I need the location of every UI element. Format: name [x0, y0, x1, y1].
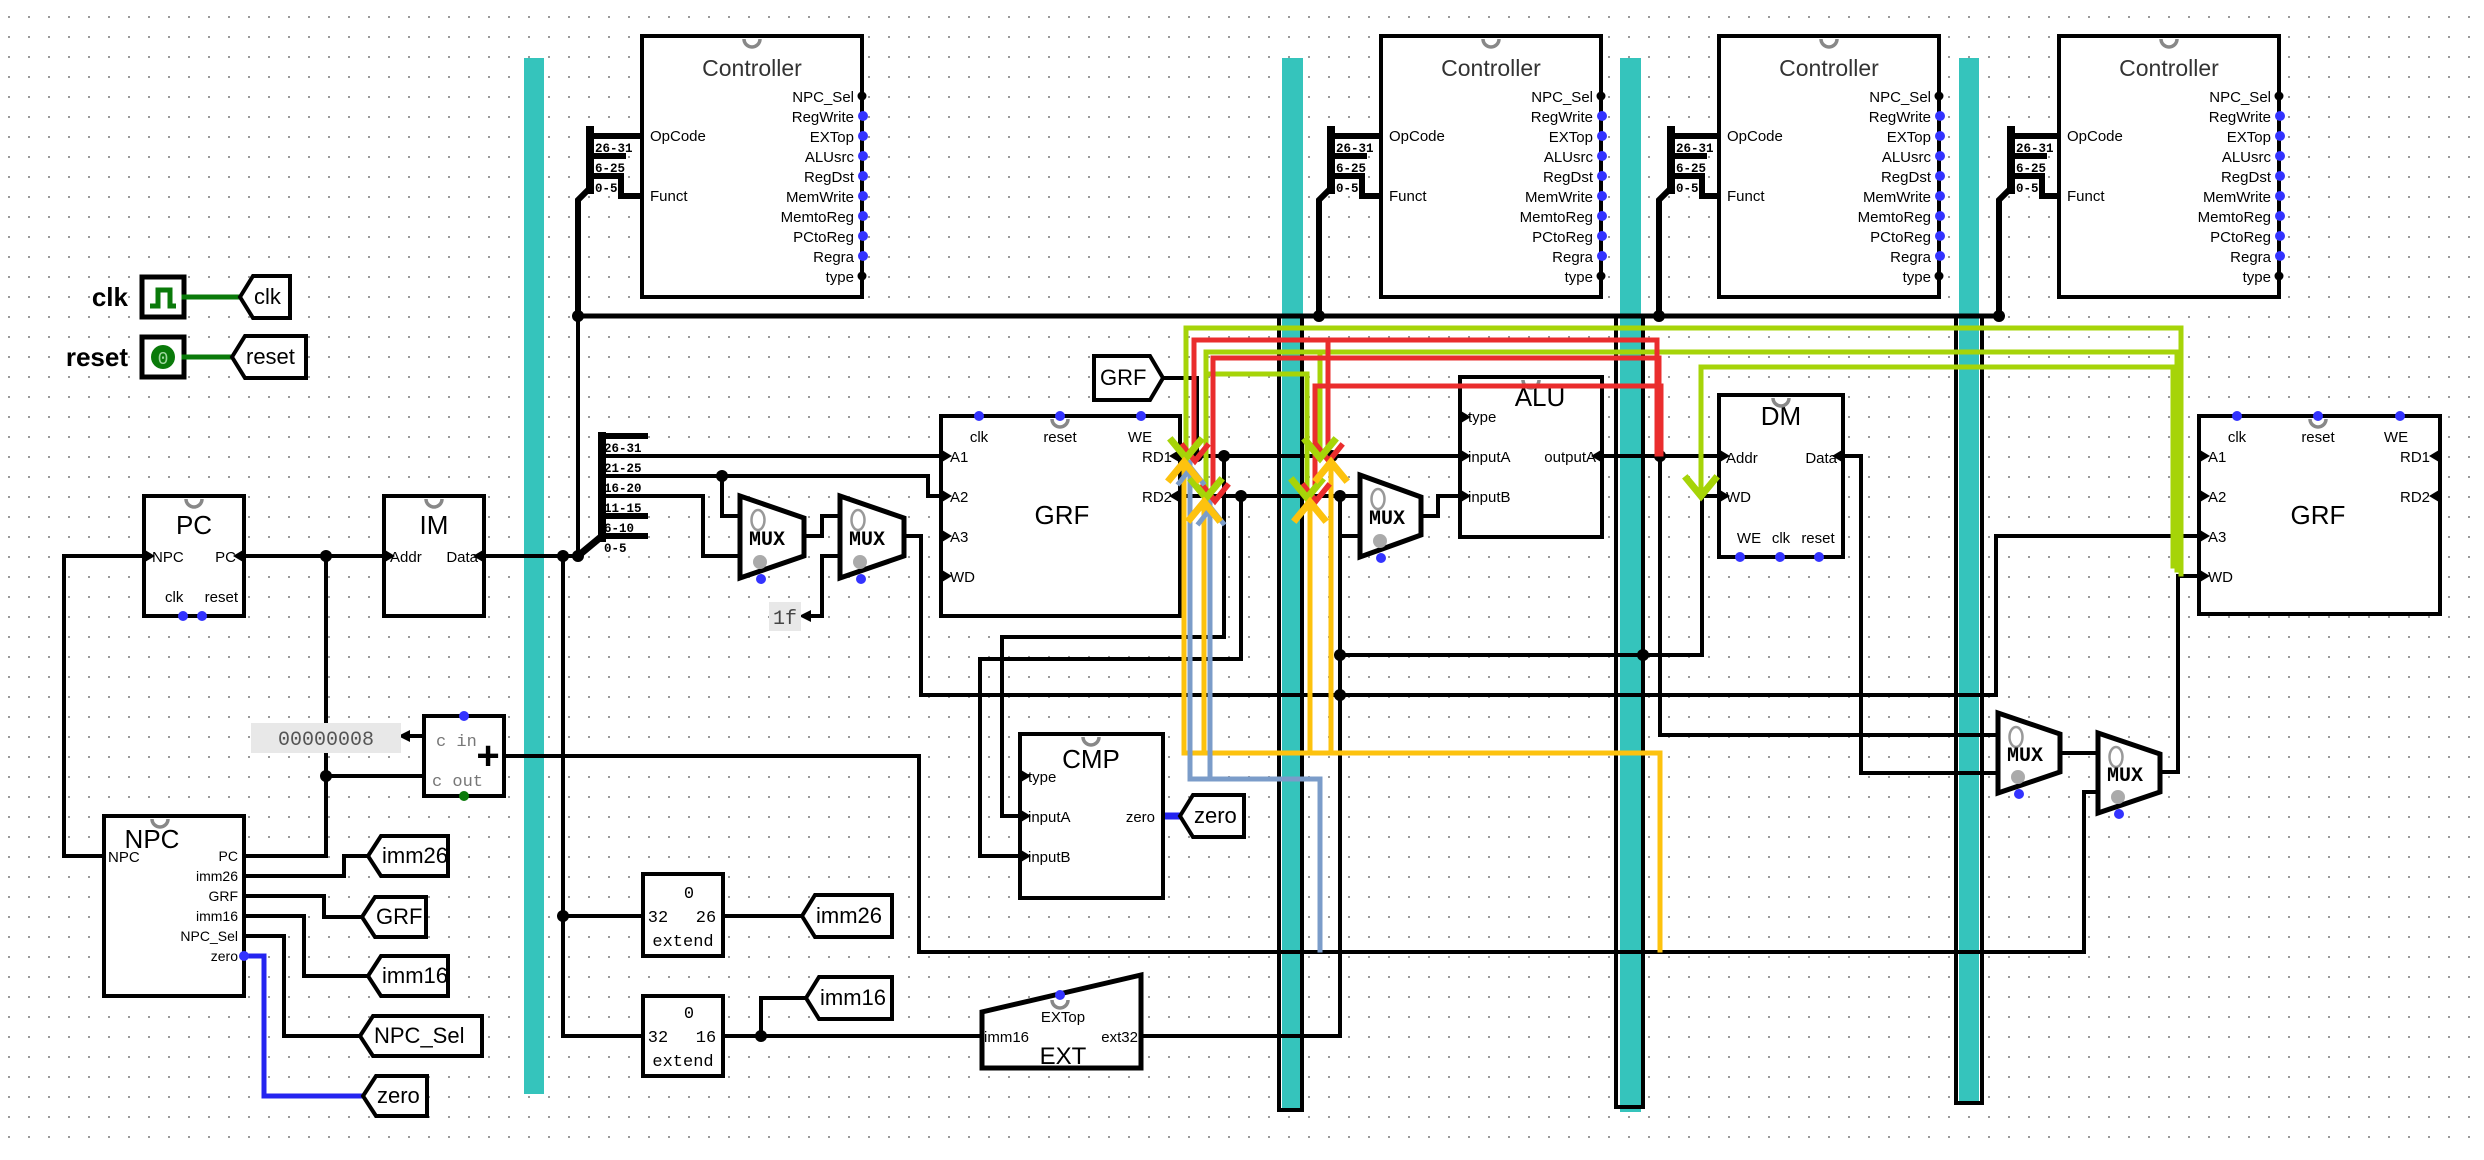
annotation green WB to RD2 left [1206, 352, 2177, 570]
svg-text:Controller: Controller [702, 55, 802, 81]
node rt junction [716, 470, 728, 482]
svg-text:EXTop: EXTop [1887, 129, 1931, 146]
svg-text:reset: reset [1043, 429, 1077, 446]
svg-text:imm26: imm26 [382, 843, 448, 868]
memory DM [1719, 395, 1843, 557]
wire DM Data to MUXA lower [1843, 456, 1998, 773]
svg-text:RD1: RD1 [2400, 449, 2430, 466]
adder PC+8 [424, 716, 504, 796]
svg-text:PCtoReg: PCtoReg [1870, 229, 1931, 246]
PC clk dot [178, 611, 188, 621]
controller U2 pin dot RegDst [1597, 171, 1607, 181]
svg-text:c in: c in [436, 733, 477, 752]
svg-text:imm16: imm16 [382, 963, 448, 988]
svg-text:RegWrite: RegWrite [2209, 109, 2271, 126]
wire MUX1 out to MUX2 [804, 516, 840, 536]
arrow blue RD2 left [1199, 508, 1223, 523]
svg-text:NPC_Sel: NPC_Sel [180, 928, 238, 944]
svg-text:type: type [1903, 269, 1931, 286]
pipeline register bar MEM/WB [1959, 58, 1979, 1102]
wire c out to adder [326, 774, 424, 778]
node adder cout junction [320, 770, 332, 782]
arrow red RD1 right [1317, 446, 1341, 461]
svg-text:NPC_Sel: NPC_Sel [1531, 89, 1593, 106]
flag zero left [363, 1076, 427, 1116]
arrow red RD2 left [1203, 486, 1227, 501]
node RD2 junction [1235, 490, 1247, 502]
IM pin Addr mark [385, 550, 395, 562]
splitter controller 2 spine [1327, 130, 1335, 190]
splitter controller 1 stub 6-25 [590, 153, 623, 159]
PC pin NPC mark [145, 550, 155, 562]
wire RD2 to CMP inputB [980, 496, 1241, 856]
flag imm26 mid [802, 895, 892, 937]
extender 32-16 [643, 996, 723, 1076]
splitter controller 1 branch 0-5 [590, 176, 640, 196]
svg-text:0-5: 0-5 [595, 182, 618, 196]
flag NPC_Sel [360, 1016, 482, 1056]
arrow green RD2 left [1192, 481, 1220, 498]
wire ALU result bypass to MUXA [1660, 456, 1998, 735]
svg-text:Regra: Regra [1552, 249, 1594, 266]
svg-text:clk: clk [970, 429, 989, 446]
wire instr feed to controller 2 splitter [1319, 188, 1331, 316]
svg-text:RD2: RD2 [2400, 489, 2430, 506]
wire ALU outputA to DM Addr [1602, 454, 1719, 458]
arrow green DM WD [1687, 479, 1715, 496]
svg-text:0-5: 0-5 [1676, 182, 1699, 196]
svg-text:RD1: RD1 [1142, 449, 1172, 466]
svg-text:A2: A2 [2208, 489, 2226, 506]
GRF2 A3 mark [2200, 530, 2210, 542]
svg-text:WD: WD [950, 569, 975, 586]
svg-text:reset: reset [246, 344, 295, 369]
annotation green WB to RD2 right [1206, 374, 1307, 488]
wire RD2 store data down [1338, 496, 1342, 1036]
arrow red RD1 left [1183, 446, 1207, 461]
svg-text:Funct: Funct [1389, 188, 1427, 205]
pipeline register bar ID/EX [1282, 58, 1303, 1112]
svg-text:ALUsrc: ALUsrc [2222, 149, 2272, 166]
svg-text:RegDst: RegDst [804, 169, 855, 186]
svg-text:0-5: 0-5 [1336, 182, 1359, 196]
svg-text:GRF: GRF [2291, 500, 2346, 530]
wire PC feedback loop left [64, 556, 144, 856]
svg-text:NPC_Sel: NPC_Sel [1869, 89, 1931, 106]
wire extend26 out to imm26 [723, 914, 802, 918]
DM Data mark [1832, 450, 1842, 462]
svg-text:Controller: Controller [1441, 55, 1541, 81]
controller U1 notch [744, 39, 760, 47]
splitter controller 2 stub 6-25 [1331, 153, 1364, 159]
wire NPC PC... imm26 out [244, 856, 368, 876]
flag reset [232, 336, 306, 378]
svg-text:PC: PC [176, 510, 212, 540]
splitter controller 1 spine [586, 130, 594, 190]
wire RD2 to MUX3 upper [1180, 494, 1360, 498]
mux M2 (RegDst b) [840, 496, 904, 578]
node instr bus junction 4 [1993, 310, 2005, 322]
controller U4 pin dot type [2275, 272, 2284, 281]
annotation blue cmp path [1190, 462, 1320, 950]
splitter controller 2 branch 26-31 [1331, 133, 1381, 139]
svg-text:MUX: MUX [749, 529, 785, 552]
svg-text:WE: WE [1128, 429, 1152, 446]
GRF1 WE dot [1136, 411, 1146, 421]
svg-text:OpCode: OpCode [1389, 128, 1445, 145]
controller U1 pin dot EXTop [858, 131, 868, 141]
svg-text:ALUsrc: ALUsrc [1544, 149, 1594, 166]
svg-text:MUX: MUX [1369, 508, 1405, 531]
svg-text:inputB: inputB [1028, 849, 1071, 866]
wire const 1f to MUX2 [806, 556, 840, 616]
controller U4 pin dot MemWrite [2275, 191, 2285, 201]
svg-text:ext32: ext32 [1101, 1029, 1138, 1046]
svg-text:32: 32 [648, 1029, 668, 1048]
svg-text:RegWrite: RegWrite [1869, 109, 1931, 126]
svg-text:EXTop: EXTop [1549, 129, 1593, 146]
controller U4 pin dot PCtoReg [2275, 231, 2285, 241]
GRF2 WE dot [2395, 411, 2405, 421]
ALU type mark [1461, 411, 1471, 423]
arrow yellow RD2 left [1190, 502, 1218, 519]
svg-text:Funct: Funct [2067, 188, 2105, 205]
svg-text:Funct: Funct [650, 188, 688, 205]
IM notch [426, 499, 442, 507]
wire rs to GRF A1 [602, 454, 941, 458]
arrow yellow RD2 right [1296, 502, 1324, 519]
flag zero cmp [1180, 795, 1244, 837]
svg-text:EXTop: EXTop [810, 129, 854, 146]
svg-text:WD: WD [2208, 569, 2233, 586]
svg-text:RegDst: RegDst [2221, 169, 2272, 186]
controller U3 pin dot type [1935, 272, 1944, 281]
wire bar3 left post [1616, 318, 1643, 1107]
node imm16 junction [755, 1030, 767, 1042]
svg-text:A1: A1 [2208, 449, 2226, 466]
svg-text:NPC_Sel: NPC_Sel [374, 1023, 464, 1048]
annotation green WB to RD1 left [1186, 328, 2181, 574]
svg-text:zero: zero [1126, 809, 1155, 826]
GRF2 reset dot [2313, 411, 2323, 421]
wire NPC GRF out [244, 896, 362, 917]
GRF1 RD2 mark [1169, 490, 1179, 502]
svg-text:clk: clk [2228, 429, 2247, 446]
annotation green leg RD1 right [1318, 352, 1323, 450]
controller U2 pin dot Regra [1597, 251, 1607, 261]
wire imm16 flag tap [761, 998, 806, 1036]
wire instr feed to controller 1 splitter [578, 188, 590, 316]
input reset component [142, 337, 184, 377]
svg-text:26-31: 26-31 [2016, 142, 2054, 156]
wire adder out PC+8 [504, 756, 2098, 952]
wire RD1 to CMP inputA [1002, 456, 1224, 816]
svg-text:NPC: NPC [108, 849, 140, 866]
annotation yellow leg RD2 right [1308, 502, 1313, 753]
adder bottom dot [459, 791, 469, 801]
wire NPC NPC_Sel out [244, 936, 360, 1036]
arrow yellow RD1 left [1170, 462, 1198, 479]
svg-text:clk: clk [92, 282, 129, 312]
annotation yellow leg RD2 left [1202, 502, 1207, 753]
arrow yellow RD1 right [1317, 462, 1345, 479]
svg-text:1f: 1f [773, 608, 797, 631]
wire instr feed to controller 4 splitter [1999, 188, 2011, 316]
GRF1 A1 mark [942, 450, 952, 462]
wire rt branch to MUX1 upper [722, 476, 740, 516]
svg-text:RegDst: RegDst [1543, 169, 1594, 186]
wire instr to extend units [563, 556, 643, 1036]
ALU inputB mark [1461, 490, 1471, 502]
adder top dot [459, 711, 469, 721]
node jr target junction [1334, 689, 1346, 701]
node IM data junction a [557, 550, 569, 562]
svg-text:NPC_Sel: NPC_Sel [792, 89, 854, 106]
GRF2 A1 mark [2200, 450, 2210, 462]
controller U4 pin dot NPC_Sel [2275, 92, 2284, 101]
CMP type mark [1021, 770, 1031, 782]
controller U2 pin dot MemWrite [1597, 191, 1607, 201]
svg-text:Regra: Regra [2230, 249, 2272, 266]
svg-text:EXTop: EXTop [2227, 129, 2271, 146]
svg-text:EXTop: EXTop [1041, 1009, 1085, 1026]
controller U1 pin dot MemtoReg [858, 211, 868, 221]
wire reset (green) [184, 355, 232, 360]
svg-text:0: 0 [684, 1005, 694, 1024]
wire NPC imm16 out [244, 916, 368, 976]
DM reset dot [1814, 552, 1824, 562]
CMP inputB mark [1021, 850, 1031, 862]
svg-text:imm16: imm16 [820, 985, 886, 1010]
mux M5 (PCtoReg) [2098, 733, 2160, 813]
wire ext32 out [1141, 1034, 1340, 1038]
input clk component [142, 277, 184, 317]
annotation green WB to DM WD [1701, 367, 2173, 566]
svg-text:imm16: imm16 [196, 908, 238, 924]
register PC [144, 496, 244, 616]
svg-text:6-25: 6-25 [1336, 162, 1366, 176]
annotation red MEM to RD1 left [1194, 340, 1657, 454]
splitter controller 2 branch 0-5 [1331, 176, 1381, 196]
annotation red MEM to RD2 left [1213, 358, 1659, 486]
svg-text:GRF: GRF [208, 888, 238, 904]
flag GRF left [362, 897, 426, 937]
svg-text:zero: zero [377, 1083, 420, 1108]
arrow green RD1 right [1306, 441, 1334, 458]
controller U4 [2059, 36, 2279, 297]
arrow green RD2 right [1293, 481, 1321, 498]
svg-text:00000008: 00000008 [278, 729, 374, 752]
arrow const 1f [799, 610, 811, 622]
svg-text:PCtoReg: PCtoReg [793, 229, 854, 246]
svg-text:26: 26 [696, 909, 716, 928]
splitter controller 4 spine [2007, 130, 2015, 190]
EXT EXTop dot [1055, 990, 1065, 1000]
splitter controller 4 stub 6-25 [2011, 153, 2044, 159]
svg-text:0-5: 0-5 [2016, 182, 2039, 196]
svg-text:Data: Data [1805, 450, 1837, 467]
splitter controller 3 branch 0-5 [1671, 176, 1721, 196]
splitter instr stub 26-31 [602, 433, 645, 439]
controller U3 pin dot ALUsrc [1935, 151, 1945, 161]
controller U4 pin dot Regra [2275, 251, 2285, 261]
svg-text:26-31: 26-31 [1676, 142, 1714, 156]
node extend feed junction [557, 910, 569, 922]
svg-text:inputB: inputB [1468, 489, 1511, 506]
wire to extend26 [563, 914, 643, 918]
controller U3 pin dot MemtoReg [1935, 211, 1945, 221]
mux M1 (RegDst) [740, 496, 804, 578]
GRF2 A2 mark [2200, 490, 2210, 502]
GRF1 A3 mark [942, 530, 952, 542]
svg-text:type: type [1565, 269, 1593, 286]
svg-text:26-31: 26-31 [1336, 142, 1374, 156]
pipeline register bar IF/ID [524, 58, 544, 1094]
svg-text:ALUsrc: ALUsrc [1882, 149, 1932, 166]
pipeline register bar EX/MEM [1620, 58, 1641, 1112]
svg-text:WE: WE [1737, 530, 1761, 547]
svg-text:inputA: inputA [1028, 809, 1071, 826]
svg-text:MUX: MUX [2007, 745, 2043, 768]
svg-text:WD: WD [1726, 489, 1751, 506]
flag clk [240, 276, 290, 318]
splitter controller 1 branch 26-31 [590, 133, 640, 139]
alu ALU [1460, 377, 1602, 537]
node RD1 flag junction [1191, 450, 1203, 462]
controller U3 pin dot Regra [1935, 251, 1945, 261]
wire MUX2 out to A3 bus [904, 536, 2199, 695]
svg-text:0: 0 [158, 350, 169, 370]
wire bar4 left post [1956, 318, 1982, 1103]
svg-text:CMP: CMP [1062, 744, 1120, 774]
controller U2 pin dot ALUsrc [1597, 151, 1607, 161]
wire branch to MUX3 lower [1340, 534, 1360, 538]
svg-text:PC: PC [215, 549, 236, 566]
CMP notch [1083, 737, 1099, 745]
wire MUX3 out to ALU inputB [1420, 496, 1460, 516]
arrow const 00000008 [398, 730, 410, 742]
svg-text:16-20: 16-20 [604, 482, 642, 496]
GRF1 reset dot [1055, 411, 1065, 421]
svg-text:MemWrite: MemWrite [2203, 189, 2271, 206]
svg-text:extend: extend [652, 1053, 713, 1072]
register file GRF (ID) [941, 416, 1180, 616]
DM Addr mark [1720, 450, 1730, 462]
splitter instr diagonal [578, 536, 602, 556]
svg-text:GRF: GRF [1100, 365, 1146, 390]
GRF1 WD mark [942, 570, 952, 582]
svg-text:RegWrite: RegWrite [1531, 109, 1593, 126]
svg-text:Controller: Controller [1779, 55, 1879, 81]
node outputA junction [1654, 450, 1666, 462]
reset constant 0 glyph [151, 345, 175, 369]
GRF1 RD1 mark [1169, 450, 1179, 462]
svg-text:Regra: Regra [1890, 249, 1932, 266]
controller U2 pin dot RegWrite [1597, 111, 1607, 121]
node store data junction [1334, 649, 1346, 661]
svg-text:GRF: GRF [1035, 500, 1090, 530]
NPC zero dot [239, 951, 249, 961]
controller U2 [1381, 36, 1601, 297]
svg-text:MemWrite: MemWrite [1863, 189, 1931, 206]
wire extend16 out to EXT [723, 1034, 982, 1038]
svg-text:WE: WE [2384, 429, 2408, 446]
controller U2 notch [1483, 39, 1499, 47]
svg-text:21-25: 21-25 [604, 462, 642, 476]
svg-text:extend: extend [652, 933, 713, 952]
svg-text:MUX: MUX [2107, 765, 2143, 788]
controller U1 pin dot PCtoReg [858, 231, 868, 241]
flag imm16 [368, 956, 448, 996]
GRF1 notch [1052, 419, 1068, 427]
splitter controller 3 spine [1667, 130, 1675, 190]
svg-text:OpCode: OpCode [2067, 128, 2123, 145]
wire MUXA out to MUXB [2060, 751, 2098, 755]
DM notch [1773, 398, 1789, 406]
svg-text:16: 16 [696, 1029, 716, 1048]
wire store data to DM WD [1340, 496, 1719, 655]
node RD1 junction [1218, 450, 1230, 462]
node instr bus junction 2 [1313, 310, 1325, 322]
svg-text:RegWrite: RegWrite [792, 109, 854, 126]
DM clk dot [1775, 552, 1785, 562]
annotation yellow leg RD1 right [1329, 462, 1334, 753]
svg-text:Addr: Addr [390, 549, 422, 566]
node RD2 right junction [1334, 490, 1346, 502]
svg-text:type: type [826, 269, 854, 286]
svg-text:Regra: Regra [813, 249, 855, 266]
controller U4 pin dot EXTop [2275, 131, 2285, 141]
extender 32-26 [643, 874, 723, 956]
comparator CMP [1020, 734, 1163, 898]
svg-text:type: type [1468, 409, 1496, 426]
mux M4 (MemtoReg) [1998, 713, 2060, 793]
svg-text:reset: reset [2301, 429, 2335, 446]
register file GRF (WB) [2199, 416, 2440, 614]
ALU notch [1523, 380, 1539, 388]
wire rd to MUX1 lower [602, 496, 740, 556]
svg-text:reset: reset [66, 342, 128, 372]
controller U2 pin dot EXTop [1597, 131, 1607, 141]
svg-text:A2: A2 [950, 489, 968, 506]
controller U3 pin dot PCtoReg [1935, 231, 1945, 241]
svg-text:imm26: imm26 [816, 903, 882, 928]
wire IM Data out [484, 554, 578, 558]
svg-text:A1: A1 [950, 449, 968, 466]
svg-text:32: 32 [648, 909, 668, 928]
controller U1 pin dot type [858, 272, 867, 281]
node bar3 store junction [1637, 649, 1649, 661]
wire RD1 to ALU inputA [1180, 454, 1460, 458]
svg-text:Data: Data [446, 549, 478, 566]
svg-text:zero: zero [211, 948, 238, 964]
splitter controller 4 branch 0-5 [2011, 176, 2061, 196]
wire GRF flag to RD1 [1163, 378, 1197, 456]
controller U1 pin dot Regra [858, 251, 868, 261]
svg-text:reset: reset [1801, 530, 1835, 547]
svg-text:zero: zero [1194, 803, 1237, 828]
svg-text:MemWrite: MemWrite [786, 189, 854, 206]
controller U3 [1719, 36, 1939, 297]
svg-text:type: type [1028, 769, 1056, 786]
flag imm26 [368, 836, 448, 876]
NPC notch [152, 819, 168, 827]
svg-text:6-25: 6-25 [1676, 162, 1706, 176]
splitter controller 3 stub 6-25 [1671, 153, 1704, 159]
node instr bus junction 3 [1653, 310, 1665, 322]
controller U3 notch [1821, 39, 1837, 47]
node IM data junction b [572, 550, 584, 562]
